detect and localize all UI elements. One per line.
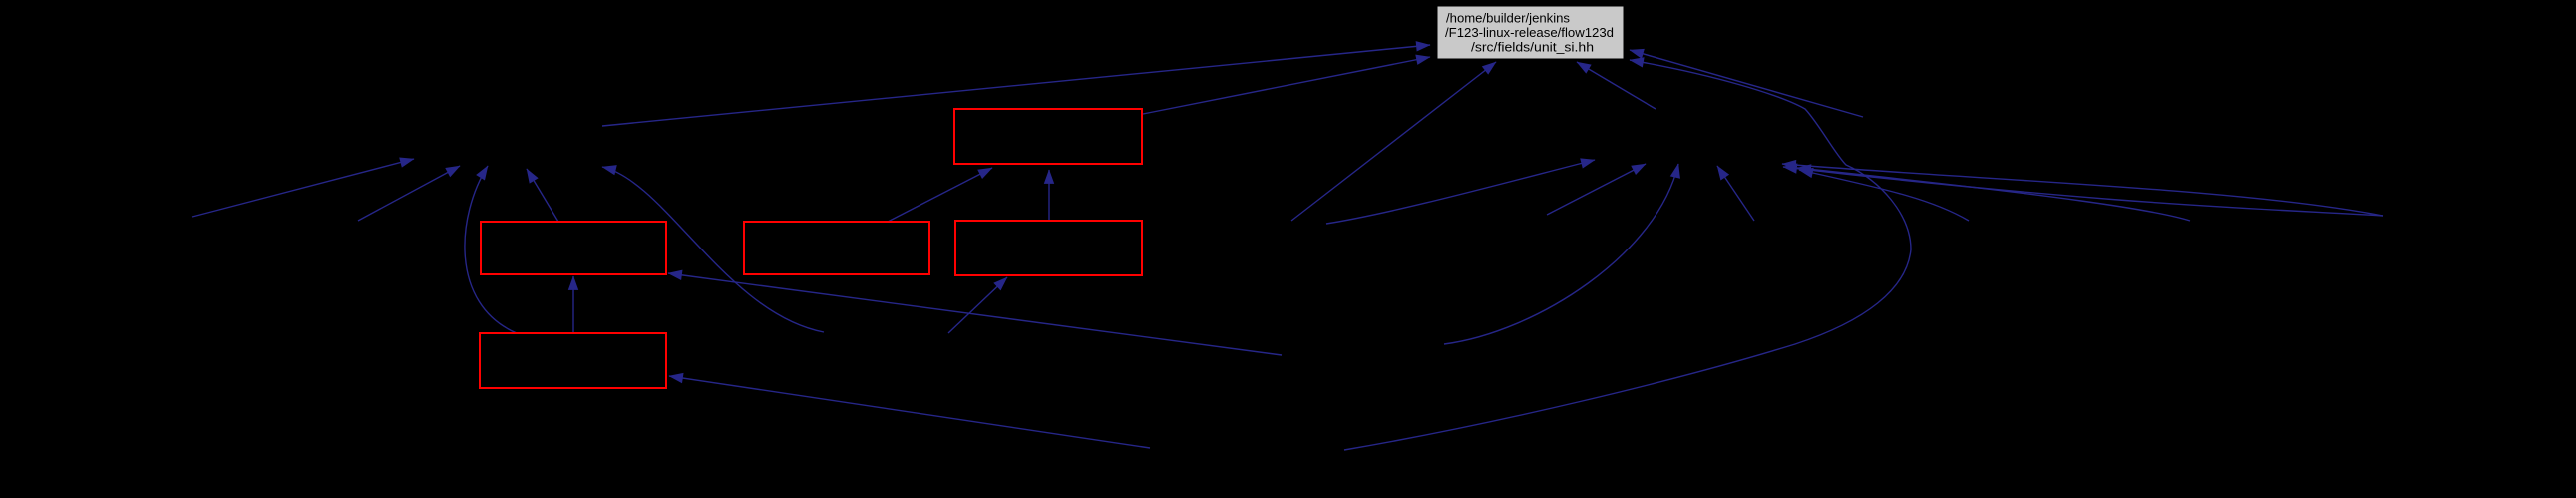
edge E11 into hidden H2 left edge [1326,160,1595,224]
edge E18 into hidden H2 right edge cluster [1797,168,2190,221]
edge E6 hidden H1 to gray unit_si.hh box left edge [602,45,1430,126]
edge E23 long line into box A right edge [668,273,1282,355]
edge F2 high curve from right node into H2 cluster [1782,164,2383,216]
edge E13 into hidden H2 bottom [1547,164,1646,215]
edge E22 into box D bottom [948,277,1007,333]
red box A [481,222,666,274]
edge E5 S-curve to hidden node H1 [602,167,824,332]
svg-text:/src/fields/unit_si.hh: /src/fields/unit_si.hh [1471,40,1594,55]
edge E10 into gray box bottom left [1291,62,1496,221]
svg-text:/home/builder/jenkins: /home/builder/jenkins [1446,11,1570,26]
edge F1 sagging curve from right node into H2 cluster [1783,167,2383,216]
edge E3 box B to hidden node H1 (curve) [465,166,517,333]
edge E4 box A to hidden node H1 [527,169,558,222]
red box B [480,333,666,388]
edge E25 long line into box B right edge [669,376,1150,448]
edge E26 box B to box A vertical [572,276,574,333]
edge E15 into hidden H2 bottom [1717,166,1754,221]
edge E7 box E to gray box left edge [1143,57,1430,114]
svg-text:/F123-linux-release/flow123d: /F123-linux-release/flow123d [1445,25,1614,40]
edge E8 box C to box E [888,168,992,222]
edge E20 big swoop from bottom node to gray box right edge [1344,60,1911,450]
gray node /home/builder/jenkins/F123-linux-release/flow123d/src/fields/unit_si.hh [1437,6,1624,59]
edge E2 to hidden node H1 [358,166,460,221]
red box D [955,221,1142,275]
red box E [954,109,1142,164]
edge E14 curved into hidden H2 bottom [1444,164,1678,344]
edge E9 box D to box E vertical [1048,170,1050,222]
edge E1 node-left to hidden node H1 [192,159,414,217]
edge E17 into hidden H2 right edge cluster [1799,170,1969,221]
edge E19 hidden H3 to gray box right edge [1630,50,1863,117]
edge E12 hidden H2 to gray box bottom [1577,62,1656,109]
red box C [744,222,929,274]
